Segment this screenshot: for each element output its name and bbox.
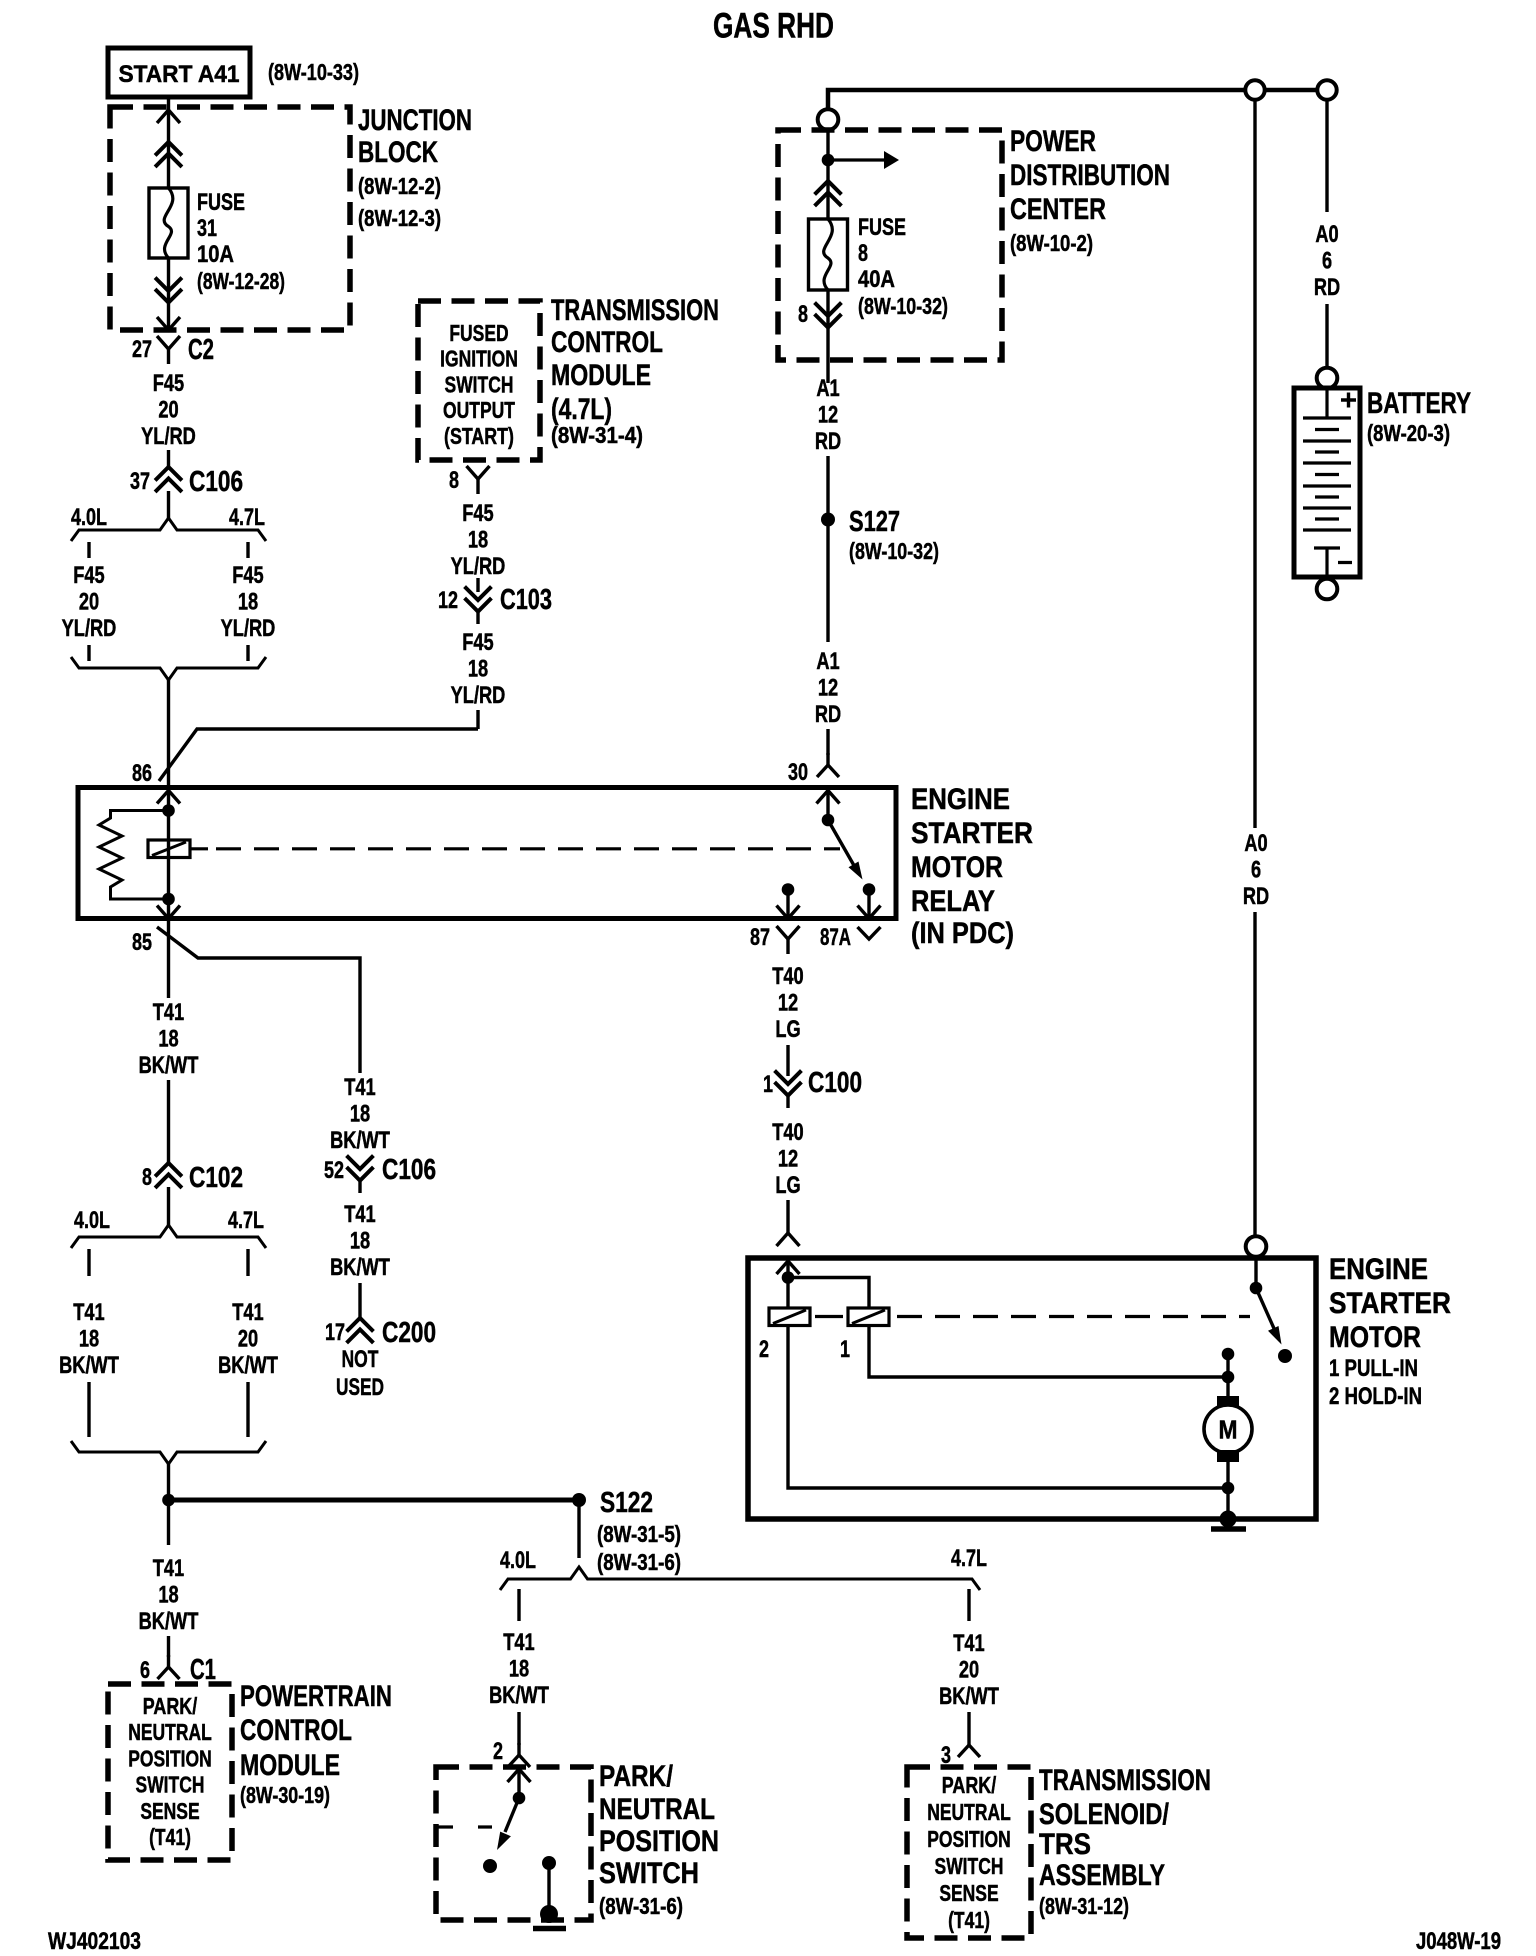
svg-text:YL/RD: YL/RD [221, 615, 276, 642]
powertrain control module box [108, 1684, 232, 1860]
connector C102 chevrons [157, 1163, 181, 1187]
svg-text:(T41): (T41) [948, 1907, 990, 1933]
splice bus wire [169, 1498, 580, 1503]
svg-text:MODULE: MODULE [551, 359, 651, 392]
junction block box [110, 107, 350, 330]
svg-text:J048W-19: J048W-19 [1416, 1928, 1501, 1955]
wire to C103 [476, 578, 479, 592]
svg-text:BATTERY: BATTERY [1367, 387, 1471, 420]
wire A0 to battery lower [1325, 304, 1328, 368]
wire fuse 8 down [826, 290, 829, 383]
wire A1 to S127 [826, 456, 829, 513]
svg-text:18: 18 [468, 656, 488, 683]
svg-text:BK/WT: BK/WT [59, 1352, 119, 1379]
wire to splice [167, 1464, 170, 1494]
svg-text:SENSE: SENSE [939, 1880, 998, 1906]
arrowhead relay pin 30 [817, 791, 840, 804]
brace merge upper [71, 657, 266, 680]
chevrons PDC [816, 181, 840, 205]
svg-text:37: 37 [130, 468, 150, 495]
svg-text:BK/WT: BK/WT [218, 1352, 278, 1379]
wire S127 down [826, 526, 829, 642]
connector C100 [776, 1072, 800, 1096]
relay switch blade [828, 820, 863, 880]
transmission solenoid box [907, 1767, 1031, 1938]
svg-text:IGNITION: IGNITION [440, 346, 518, 372]
svg-text:(8W-31-6): (8W-31-6) [599, 1893, 683, 1919]
connector C106 chevrons [157, 467, 181, 491]
svg-text:8: 8 [449, 467, 459, 494]
wire T41 to C1 [167, 1636, 170, 1657]
svg-text:POSITION: POSITION [927, 1826, 1011, 1852]
svg-text:BLOCK: BLOCK [358, 136, 438, 169]
svg-text:40A: 40A [858, 266, 895, 293]
svg-text:2: 2 [759, 1336, 769, 1363]
svg-text:RD: RD [1243, 883, 1269, 910]
starter switch pivot [1250, 1282, 1263, 1295]
svg-text:A0: A0 [1244, 830, 1267, 857]
arrowhead pin 87A [858, 906, 881, 919]
svg-text:LG: LG [775, 1172, 800, 1199]
ground junction [540, 1905, 558, 1923]
svg-text:CONTROL: CONTROL [240, 1714, 352, 1747]
svg-text:4.7L: 4.7L [228, 1207, 264, 1234]
splice S122 [572, 1493, 586, 1507]
svg-text:10A: 10A [197, 241, 234, 268]
svg-text:1 PULL-IN: 1 PULL-IN [1329, 1355, 1418, 1382]
svg-text:F45: F45 [232, 562, 263, 589]
svg-text:POSITION: POSITION [128, 1745, 212, 1771]
wire pull-in coil to motor feed [869, 1325, 1222, 1377]
wire 4.7L branch [246, 542, 249, 558]
svg-text:18: 18 [509, 1656, 529, 1683]
svg-text:BK/WT: BK/WT [330, 1254, 390, 1281]
wire PNP to ground [547, 1863, 550, 1912]
svg-text:RD: RD [815, 428, 841, 455]
wire 4.7L branch [246, 1382, 249, 1437]
svg-text:MOTOR: MOTOR [911, 851, 1003, 884]
svg-text:(8W-12-2): (8W-12-2) [358, 173, 441, 199]
arrowhead relay pin 85 [157, 906, 180, 919]
wire to solenoid coils [786, 1261, 789, 1308]
svg-text:17: 17 [325, 1319, 345, 1346]
svg-text:(8W-10-32): (8W-10-32) [858, 293, 948, 319]
starter mechanical link [815, 1315, 843, 1318]
svg-text:JUNCTION: JUNCTION [358, 104, 472, 137]
svg-text:(IN PDC): (IN PDC) [911, 917, 1014, 950]
arrowhead relay pin 86 [157, 791, 180, 804]
wire fuse 31 to C2 [167, 258, 170, 330]
svg-text:20: 20 [79, 589, 99, 616]
svg-text:1: 1 [763, 1071, 773, 1098]
svg-text:(8W-12-28): (8W-12-28) [197, 268, 285, 294]
svg-text:BK/WT: BK/WT [939, 1683, 999, 1710]
ground [533, 1926, 566, 1932]
junction coil top [162, 804, 175, 817]
wire 4.7L branch [246, 1249, 249, 1276]
wire A0 bus upper [1253, 100, 1256, 828]
svg-text:T41: T41 [153, 999, 184, 1026]
svg-text:NEUTRAL: NEUTRAL [927, 1799, 1011, 1825]
junction coil bottom [162, 893, 175, 906]
svg-text:85: 85 [132, 929, 152, 956]
svg-text:C2: C2 [188, 334, 214, 366]
wire pin 85 branch to C106-52 [157, 927, 360, 1073]
PDC feed ring [818, 109, 839, 130]
svg-text:STARTER: STARTER [911, 817, 1033, 850]
svg-text:YL/RD: YL/RD [451, 553, 506, 580]
svg-text:12: 12 [438, 587, 458, 614]
svg-text:T41: T41 [344, 1074, 375, 1101]
wire PDC feed [826, 130, 829, 219]
wire to pull-in coil [788, 1278, 869, 1309]
svg-text:NOT: NOT [342, 1346, 379, 1373]
brace merge lower [71, 1441, 266, 1464]
svg-text:MODULE: MODULE [240, 1749, 340, 1782]
svg-text:NEUTRAL: NEUTRAL [128, 1719, 212, 1745]
pin 6 arrow [158, 1655, 180, 1679]
svg-text:T41: T41 [153, 1555, 184, 1582]
svg-text:SWITCH: SWITCH [599, 1857, 699, 1890]
engine starter motor box [748, 1258, 1316, 1519]
svg-text:(8W-31-4): (8W-31-4) [551, 422, 643, 448]
wire relay common [826, 790, 829, 820]
wire contact to motor [1226, 1354, 1229, 1397]
brace split bottom [500, 1567, 980, 1590]
svg-text:PARK/: PARK/ [143, 1693, 198, 1719]
chevrons PDC pin 8 [816, 304, 840, 328]
wire S122 down [577, 1500, 580, 1558]
wire PNP switch [517, 1769, 520, 1798]
wire 4.0L branch [87, 542, 90, 558]
svg-text:C106: C106 [382, 1154, 436, 1186]
svg-text:POWER: POWER [1010, 125, 1096, 158]
svg-text:RD: RD [815, 701, 841, 728]
svg-text:A1: A1 [816, 375, 839, 402]
svg-text:BK/WT: BK/WT [330, 1127, 390, 1154]
svg-text:OUTPUT: OUTPUT [443, 397, 515, 423]
svg-text:(8W-31-5): (8W-31-5) [597, 1521, 681, 1547]
relay coil [148, 840, 190, 858]
svg-text:87: 87 [750, 924, 770, 951]
wire motor to ground [1226, 1462, 1229, 1519]
wire T41 to C102 [167, 1080, 170, 1163]
ground junction starter [1220, 1511, 1237, 1528]
svg-text:FUSE: FUSE [197, 189, 245, 216]
svg-text:USED: USED [336, 1374, 384, 1401]
svg-text:TRANSMISSION: TRANSMISSION [551, 294, 719, 327]
svg-text:YL/RD: YL/RD [141, 423, 196, 450]
svg-text:T41: T41 [953, 1630, 984, 1657]
wire A1 to relay 30 [826, 729, 829, 755]
wire T41 to TRS [967, 1712, 970, 1733]
svg-text:8: 8 [858, 240, 868, 267]
relay switch pivot [822, 814, 835, 827]
svg-text:SWITCH: SWITCH [935, 1853, 1004, 1879]
wire C103 to relay 86 [476, 710, 479, 729]
starter contact open [1278, 1349, 1292, 1363]
svg-text:4.7L: 4.7L [229, 504, 265, 531]
svg-text:52: 52 [324, 1157, 344, 1184]
svg-text:4.0L: 4.0L [74, 1207, 110, 1234]
wire C102 to brace [167, 1187, 170, 1226]
svg-text:2: 2 [493, 1738, 503, 1765]
starter switch blade [1256, 1288, 1282, 1345]
connector pin 87 [777, 926, 800, 954]
svg-text:(8W-10-32): (8W-10-32) [849, 538, 939, 564]
svg-text:2 HOLD-IN: 2 HOLD-IN [1329, 1383, 1422, 1410]
solenoid coil 1 pull-in [848, 1308, 889, 1326]
wire F45 to C106 [167, 450, 170, 467]
wire 4.7L branch [246, 645, 249, 661]
relay contact 87A [863, 883, 876, 896]
svg-text:CONTROL: CONTROL [551, 326, 663, 359]
svg-text:C200: C200 [382, 1317, 436, 1349]
svg-text:SOLENOID/: SOLENOID/ [1039, 1798, 1170, 1831]
svg-text:C100: C100 [808, 1067, 862, 1099]
chevrons junction block feed [157, 142, 181, 166]
svg-text:POWERTRAIN: POWERTRAIN [240, 1680, 392, 1713]
wire TCM branch to pin 86 [159, 729, 478, 781]
svg-text:START A41: START A41 [119, 61, 240, 88]
wire 4.7L branch [967, 1589, 970, 1621]
svg-text:S122: S122 [600, 1487, 653, 1519]
svg-text:6: 6 [1251, 857, 1261, 884]
ground starter motor [1211, 1526, 1246, 1532]
solenoid coil 2 hold-in [769, 1308, 810, 1326]
relay mechanical link [190, 847, 208, 850]
battery [1294, 388, 1360, 577]
svg-text:S127: S127 [849, 506, 900, 538]
svg-text:20: 20 [158, 397, 178, 424]
svg-text:20: 20 [959, 1657, 979, 1684]
engine starter motor relay box [78, 788, 896, 919]
transmission control module box [418, 301, 540, 460]
connector C2 pin 27 [157, 336, 180, 364]
svg-text:C1: C1 [190, 1654, 216, 1686]
svg-text:86: 86 [132, 760, 152, 787]
battery positive ring [1317, 368, 1338, 389]
junction motor feed [1222, 1371, 1235, 1384]
svg-text:GAS RHD: GAS RHD [713, 7, 834, 46]
wire 4.0L branch [87, 1382, 90, 1437]
wire 4.0L branch [517, 1589, 520, 1621]
svg-text:CENTER: CENTER [1010, 193, 1106, 226]
svg-text:YL/RD: YL/RD [451, 682, 506, 709]
svg-text:T40: T40 [772, 1119, 803, 1146]
svg-text:18: 18 [238, 589, 258, 616]
brace split lower [71, 1225, 266, 1248]
wire T41 to C200 [358, 1283, 361, 1318]
junction splice bus left [162, 1494, 175, 1507]
arrowhead into PNP switch [508, 1769, 531, 1782]
svg-text:MOTOR: MOTOR [1329, 1321, 1421, 1354]
wire A0 to battery [1325, 100, 1328, 212]
svg-text:RELAY: RELAY [911, 885, 995, 918]
svg-text:YL/RD: YL/RD [62, 615, 117, 642]
svg-text:A0: A0 [1315, 221, 1338, 248]
splice in PDC [822, 154, 835, 167]
svg-text:SENSE: SENSE [140, 1798, 199, 1824]
PNP switch pivot [513, 1792, 526, 1805]
PNP contact right [542, 1856, 556, 1870]
pin 2 arrow [508, 1743, 530, 1767]
svg-text:(8W-31-6): (8W-31-6) [597, 1549, 681, 1575]
svg-text:(T41): (T41) [149, 1824, 191, 1850]
svg-text:BK/WT: BK/WT [139, 1608, 199, 1635]
PNP mechanical link [438, 1825, 492, 1828]
svg-text:ASSEMBLY: ASSEMBLY [1039, 1859, 1165, 1892]
bus ring left [1245, 80, 1264, 99]
svg-text:4.0L: 4.0L [71, 504, 107, 531]
svg-text:(8W-31-12): (8W-31-12) [1039, 1893, 1129, 1919]
connector C103 [466, 588, 490, 612]
arrowhead inside starter box [777, 1261, 800, 1274]
wire splice to PCM [167, 1500, 170, 1545]
arrow other circuits [828, 151, 899, 169]
fuse 31 [149, 188, 188, 258]
svg-text:6: 6 [140, 1657, 150, 1684]
svg-text:RD: RD [1314, 274, 1340, 301]
svg-text:6: 6 [1322, 248, 1332, 275]
svg-text:87A: 87A [820, 924, 851, 951]
svg-text:LG: LG [775, 1016, 800, 1043]
svg-text:BK/WT: BK/WT [489, 1682, 549, 1709]
svg-text:ENGINE: ENGINE [1329, 1253, 1428, 1286]
svg-text:18: 18 [79, 1326, 99, 1353]
wire relay coil [167, 790, 170, 918]
svg-text:27: 27 [132, 336, 152, 363]
splice S127 [821, 513, 835, 527]
wire 87A [867, 890, 870, 919]
svg-text:31: 31 [197, 215, 217, 242]
connector C106 pin 52 [348, 1157, 372, 1181]
svg-text:PARK/: PARK/ [599, 1760, 674, 1793]
svg-text:18: 18 [350, 1228, 370, 1255]
arrowhead exit junction block [157, 317, 180, 330]
wire 4.0L branch [87, 645, 90, 661]
svg-text:NEUTRAL: NEUTRAL [599, 1793, 715, 1826]
wire 87 [786, 890, 789, 919]
svg-text:8: 8 [142, 1164, 152, 1191]
svg-text:TRS: TRS [1039, 1828, 1091, 1861]
svg-text:F45: F45 [462, 500, 493, 527]
svg-text:8: 8 [798, 301, 808, 328]
START A41 box [108, 48, 250, 97]
svg-text:(START): (START) [444, 423, 514, 449]
svg-text:F45: F45 [462, 629, 493, 656]
pin 3 arrow [958, 1733, 980, 1757]
bus ring right [1317, 80, 1336, 99]
wire [828, 90, 1327, 109]
svg-text:POSITION: POSITION [599, 1825, 719, 1858]
svg-text:12: 12 [818, 675, 838, 702]
power distribution center box [778, 130, 1002, 360]
svg-text:(8W-10-33): (8W-10-33) [268, 59, 359, 85]
relay resistor [99, 811, 169, 900]
svg-text:C106: C106 [189, 466, 243, 498]
svg-text:1: 1 [840, 1336, 850, 1363]
svg-text:T41: T41 [503, 1629, 534, 1656]
wire 4.0L branch [87, 1249, 90, 1276]
junction motor ground [1222, 1482, 1235, 1495]
svg-text:T41: T41 [73, 1299, 104, 1326]
svg-text:T41: T41 [344, 1201, 375, 1228]
svg-text:18: 18 [350, 1101, 370, 1128]
svg-text:FUSED: FUSED [449, 320, 508, 346]
wire START to fuse 31 [167, 97, 170, 188]
svg-text:(8W-10-2): (8W-10-2) [1010, 230, 1093, 256]
svg-text:(8W-12-3): (8W-12-3) [358, 205, 441, 231]
svg-text:(8W-30-19): (8W-30-19) [240, 1782, 330, 1808]
park/neutral position switch box [436, 1767, 591, 1920]
wire hold-in coil to ground [788, 1325, 1222, 1488]
svg-text:12: 12 [778, 1146, 798, 1173]
svg-text:T41: T41 [232, 1299, 263, 1326]
svg-text:20: 20 [238, 1326, 258, 1353]
motor M [1204, 1396, 1252, 1462]
svg-text:M: M [1219, 1415, 1238, 1445]
svg-text:12: 12 [818, 402, 838, 429]
wire B+ to switch [1254, 1257, 1257, 1288]
svg-text:18: 18 [158, 1026, 178, 1053]
wire to relay pin 86 [167, 680, 170, 787]
starter contact [1222, 1348, 1235, 1361]
svg-text:4.7L: 4.7L [951, 1545, 987, 1572]
wire T41 to PNP switch [517, 1712, 520, 1745]
wire T40 to starter [786, 1200, 789, 1233]
svg-text:SWITCH: SWITCH [136, 1772, 205, 1798]
arrowhead pin 87 [777, 906, 800, 919]
svg-text:T40: T40 [772, 963, 803, 990]
wire T40 to C100 [786, 1045, 789, 1076]
pin 30 arrow [817, 753, 839, 777]
PNP switch blade [497, 1798, 519, 1850]
brace split upper [71, 518, 266, 541]
arrowhead into junction block [157, 110, 180, 123]
PNP contact left [483, 1859, 497, 1873]
arrowhead above starter box [777, 1233, 800, 1246]
svg-text:F45: F45 [153, 370, 184, 397]
fuse 8 [809, 219, 848, 290]
wire pin 85 down [167, 919, 170, 999]
svg-text:4.0L: 4.0L [500, 1547, 536, 1574]
connector pin 87A [858, 927, 881, 939]
svg-text:ENGINE: ENGINE [911, 783, 1010, 816]
svg-text:SWITCH: SWITCH [445, 371, 514, 397]
connector TCM pin 8 [467, 466, 490, 494]
junction solenoid feed [782, 1271, 795, 1284]
svg-text:F45: F45 [73, 562, 104, 589]
svg-text:BK/WT: BK/WT [139, 1052, 199, 1079]
svg-text:12: 12 [778, 990, 798, 1017]
svg-text:18: 18 [158, 1582, 178, 1609]
wire C106 to brace [167, 491, 170, 518]
svg-text:(8W-20-3): (8W-20-3) [1367, 420, 1450, 446]
starter B+ ring [1246, 1236, 1267, 1257]
svg-text:C103: C103 [500, 584, 552, 616]
svg-text:A1: A1 [816, 648, 839, 675]
relay contact 87 [782, 883, 795, 896]
svg-text:FUSE: FUSE [858, 214, 906, 241]
svg-text:18: 18 [468, 527, 488, 554]
svg-text:PARK/: PARK/ [942, 1772, 997, 1798]
svg-text:C102: C102 [189, 1162, 243, 1194]
svg-text:30: 30 [788, 759, 808, 786]
battery negative ring [1317, 579, 1338, 600]
svg-text:TRANSMISSION: TRANSMISSION [1039, 1764, 1211, 1797]
svg-text:DISTRIBUTION: DISTRIBUTION [1010, 159, 1170, 192]
